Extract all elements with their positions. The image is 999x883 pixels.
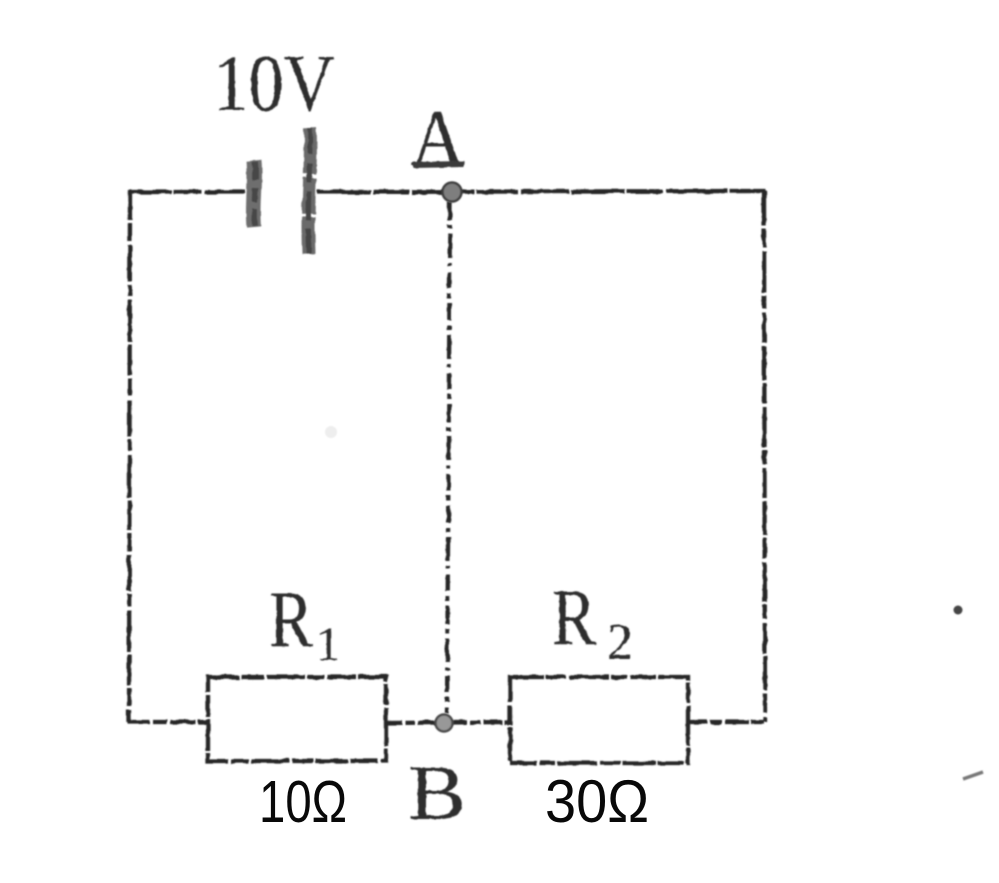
resistor R2 box (510, 677, 688, 763)
svg-text:10Ω: 10Ω (259, 769, 347, 835)
wire bottom-middle segment (386, 722, 509, 723)
wire top-right segment (317, 191, 765, 192)
wire top-left segment (130, 190, 245, 194)
node A (443, 183, 462, 202)
svg-text:A: A (411, 95, 465, 183)
stray mark dot right (954, 606, 963, 615)
wire right vertical (764, 191, 765, 722)
stray mark faint smudge (325, 426, 337, 438)
svg-text:30Ω: 30Ω (545, 768, 649, 835)
label 10V (battery value) (213, 40, 335, 128)
node label B (408, 749, 466, 836)
battery plate negative (short thick) (253, 161, 255, 227)
svg-text:1: 1 (316, 618, 340, 671)
resistor R1 box (208, 677, 386, 761)
svg-text:B: B (408, 749, 466, 836)
svg-text:10V: 10V (213, 40, 335, 128)
svg-text:2: 2 (607, 614, 633, 671)
wire bottom-right segment (689, 720, 764, 724)
label R2 (552, 574, 633, 671)
stray mark dash bottom right (963, 772, 983, 779)
svg-text:R: R (552, 574, 597, 662)
label R1 (269, 576, 340, 671)
node label A (411, 95, 465, 183)
node B (436, 715, 453, 732)
wire left vertical (129, 190, 130, 722)
svg-text:R: R (269, 576, 314, 664)
wire middle vertical A-B (447, 202, 450, 713)
wire bottom-left segment (128, 720, 207, 724)
battery plate positive (long thin) (308, 128, 310, 254)
